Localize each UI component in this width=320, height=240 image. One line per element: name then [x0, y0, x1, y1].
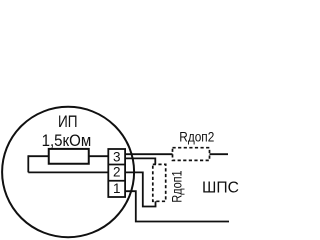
terminal divider 2/1	[108, 180, 125, 182]
wire: vertical bracket	[27, 155, 29, 172]
svg-text:3: 3	[113, 149, 121, 164]
terminal divider 3/2	[108, 164, 125, 166]
svg-text:Rдоп2: Rдоп2	[179, 129, 214, 145]
wire: terminal 3 second tap to Rdop1 top	[125, 158, 155, 164]
wire: terminal 2 to Rdop1 bottom	[125, 172, 156, 206]
wire: resistor right lead to terminal 3	[89, 155, 109, 157]
wire: Rdop1 bottom stub	[155, 201, 157, 206]
svg-text:Rдоп1: Rдоп1	[170, 170, 186, 202]
resistor Rdop2 (dashed)	[173, 148, 210, 161]
svg-text:1: 1	[113, 181, 121, 196]
wire: terminal 3 to Rdop2	[125, 153, 172, 155]
wire: lower horizontal to terminal 2	[28, 171, 108, 173]
resistor Rdop1 (dashed)	[153, 164, 166, 201]
svg-text:2: 2	[113, 165, 121, 180]
svg-text:1,5кОм: 1,5кОм	[42, 132, 92, 150]
svg-text:ИП: ИП	[58, 113, 78, 131]
terminal block outline	[108, 149, 125, 197]
wire: Rdop2 right lead	[210, 153, 229, 155]
detector body circle ИП	[2, 107, 134, 237]
wire: terminal 1 down to bottom line	[125, 191, 229, 221]
svg-text:ШПС: ШПС	[202, 180, 239, 197]
resistor R 1,5кОм	[49, 149, 89, 164]
wire: resistor left lead to bracket	[28, 155, 48, 157]
